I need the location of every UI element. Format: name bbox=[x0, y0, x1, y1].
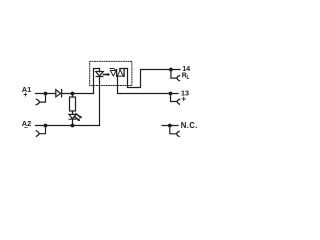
triac right triangle bbox=[117, 70, 123, 76]
clamp N.C. bbox=[177, 132, 180, 137]
svg-text:+: + bbox=[23, 92, 27, 99]
wire A1 horizontal bbox=[36, 93, 94, 95]
wire feed up into box bbox=[94, 69, 100, 94]
diode D1 bbox=[56, 90, 62, 97]
node A1 junction bbox=[44, 92, 48, 96]
triac right bar bbox=[123, 70, 125, 77]
LED indicator bbox=[69, 114, 76, 119]
clamp 14 bbox=[177, 76, 180, 81]
wire clamp N.C. bbox=[170, 126, 177, 134]
svg-text:–: – bbox=[24, 124, 28, 131]
node LED chain bottom bbox=[71, 124, 75, 128]
wire triac MT1 to terminal 13 bbox=[118, 76, 179, 93]
clamp 13 bbox=[177, 99, 179, 104]
node A2 junction bbox=[44, 124, 48, 128]
opto LED bbox=[96, 72, 104, 77]
LED arrow 2 bbox=[74, 117, 78, 120]
optocoupler dashed box bbox=[90, 61, 132, 85]
wire N.C. stub bbox=[162, 125, 178, 127]
wire clamp 14 bbox=[171, 70, 177, 79]
wire A2 horizontal bbox=[36, 125, 100, 127]
node N.C. bbox=[168, 124, 172, 128]
wire A2 clamp drop bbox=[39, 126, 46, 134]
node terminal 13 bbox=[169, 92, 173, 96]
LED arrow 1 bbox=[76, 114, 80, 117]
resistor R bbox=[72, 94, 74, 115]
node terminal 14 bbox=[169, 68, 173, 72]
clamp A2 bbox=[36, 131, 39, 137]
wire clamp 13 bbox=[171, 94, 178, 102]
light emission arrow bbox=[104, 74, 108, 76]
triac gate lead bbox=[110, 69, 116, 71]
node resistor tap bbox=[71, 92, 75, 96]
triac middle bar bbox=[116, 70, 118, 77]
svg-text:L: L bbox=[187, 75, 190, 81]
wire A1 clamp drop bbox=[39, 94, 45, 103]
triac top rail bbox=[120, 69, 128, 71]
svg-text:N.C.: N.C. bbox=[181, 121, 198, 130]
triac left triangle bbox=[110, 71, 116, 77]
wire opto LED cathode down bbox=[99, 69, 101, 126]
svg-text:+: + bbox=[181, 95, 186, 104]
clamp A1 bbox=[36, 99, 39, 104]
wire triac MT2 to terminal 14 bbox=[128, 69, 181, 88]
